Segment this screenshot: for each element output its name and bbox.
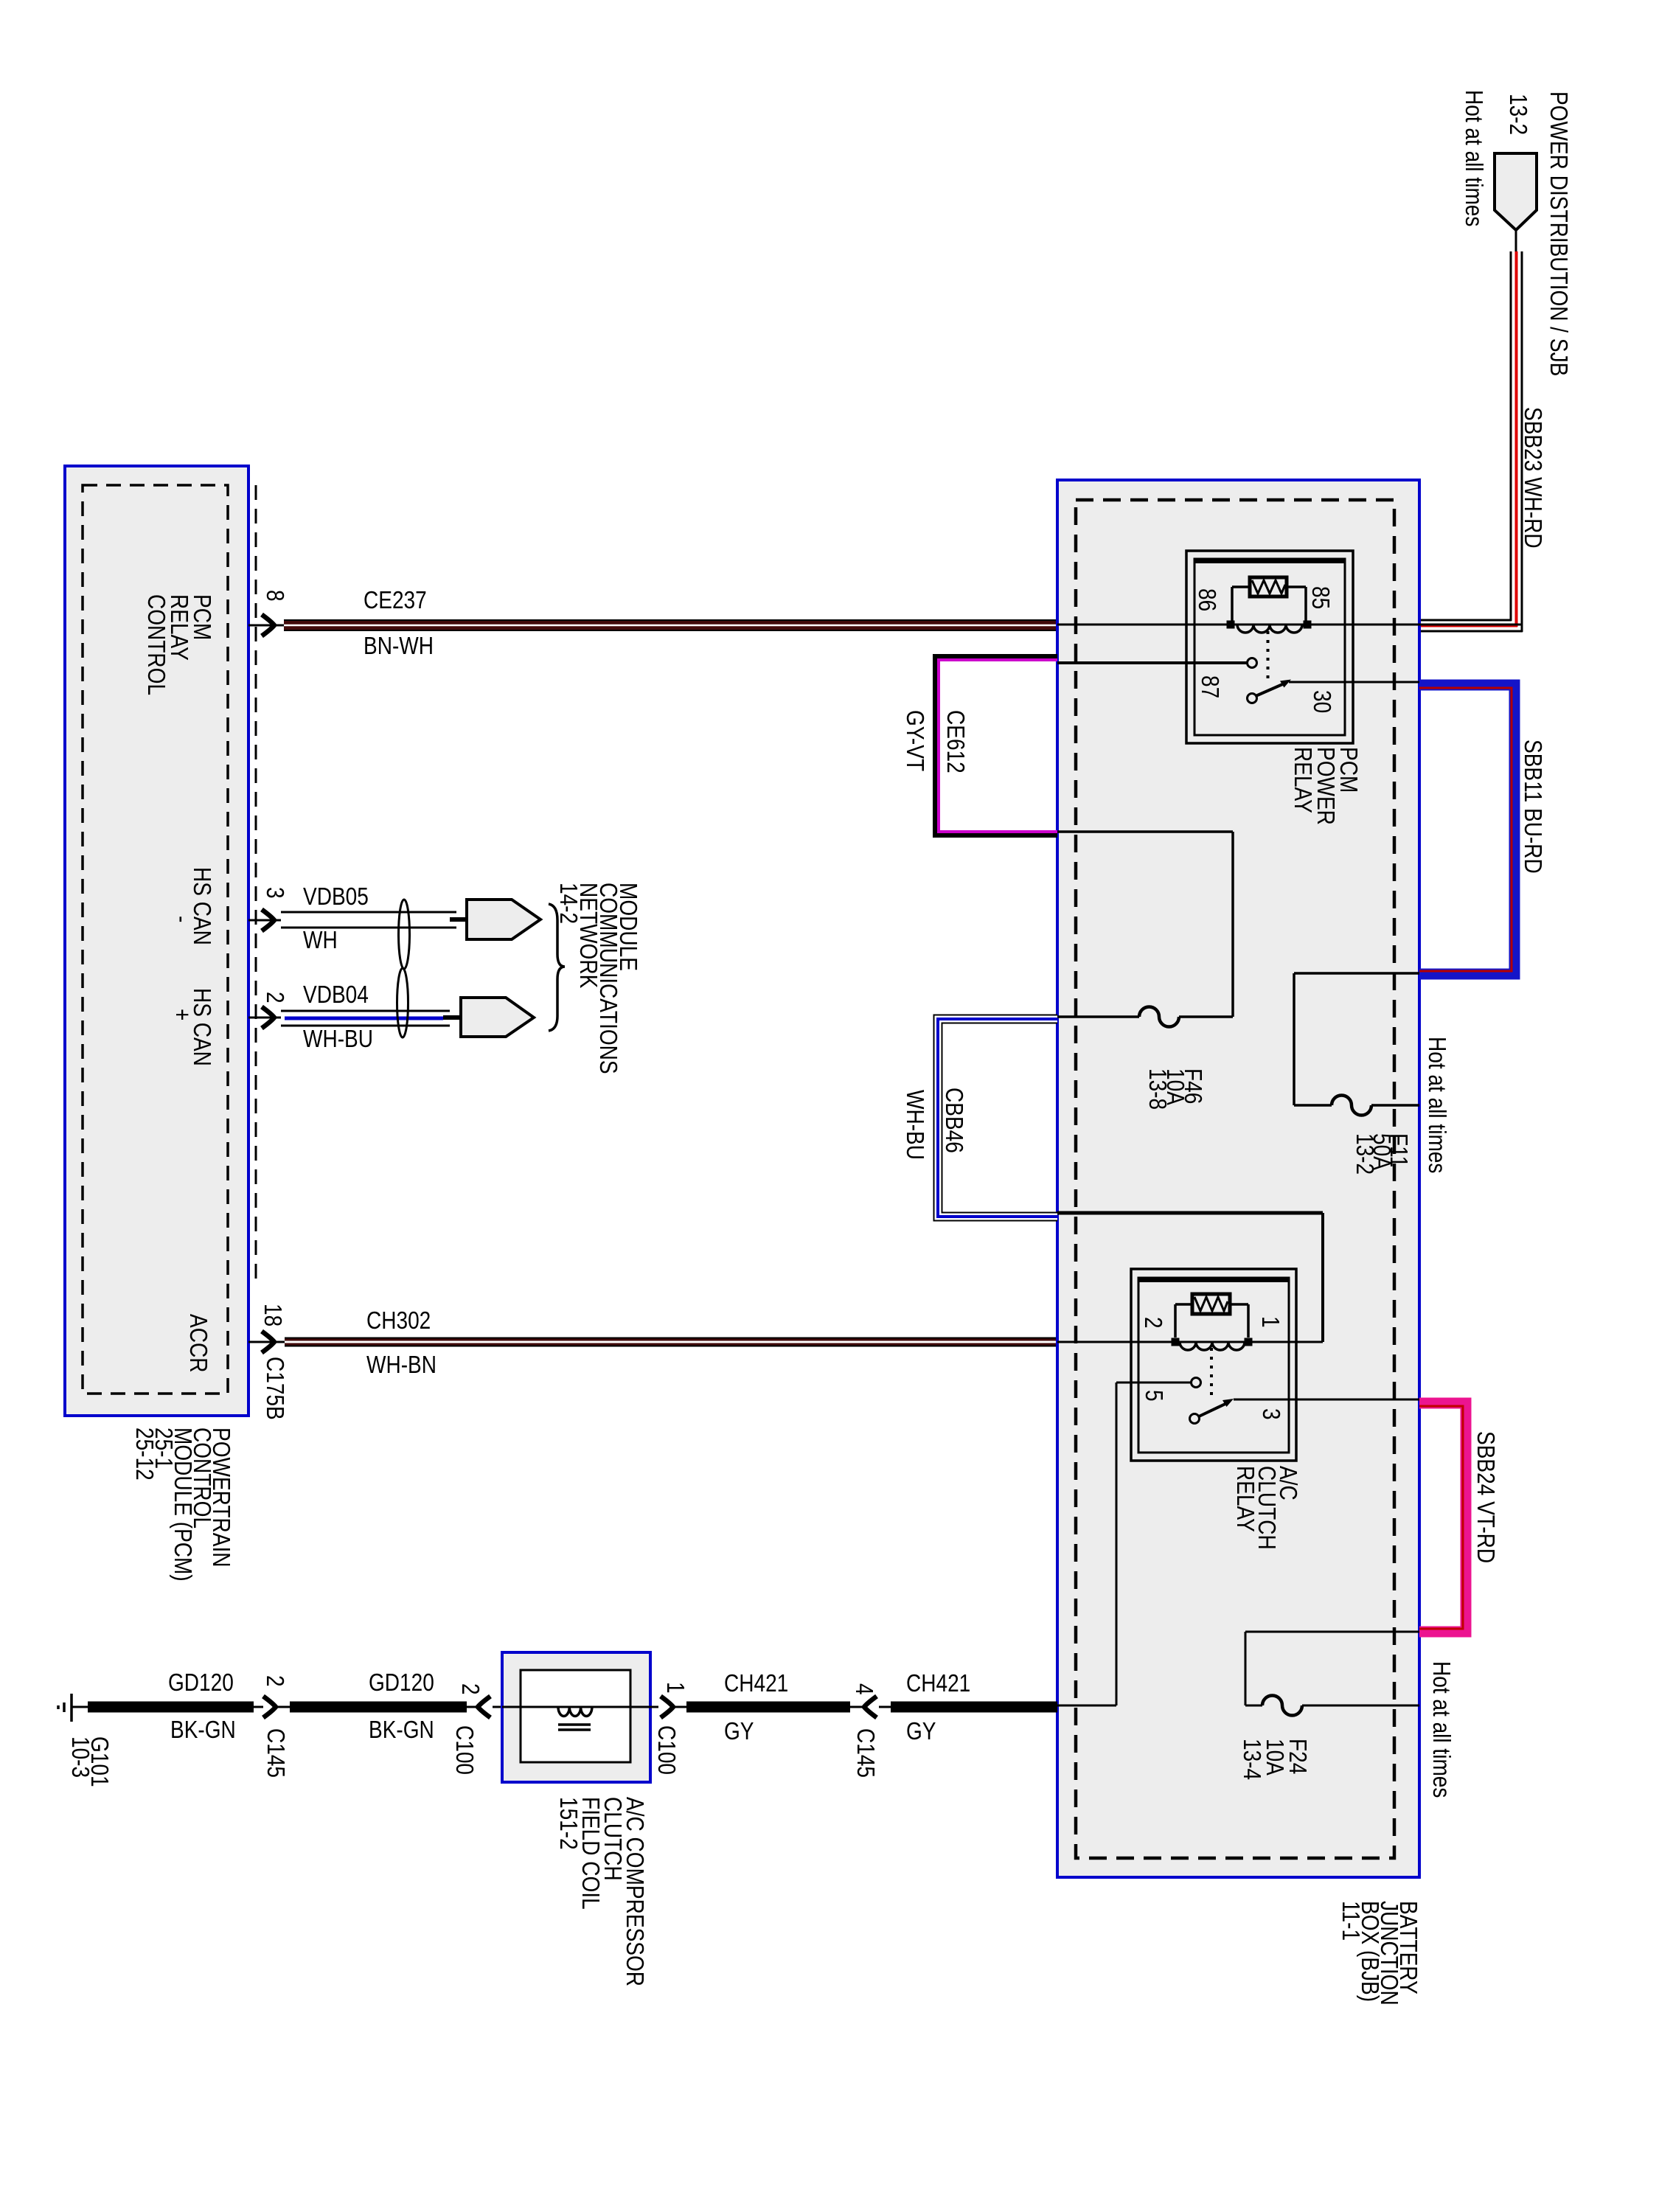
svg-text:CH421: CH421 xyxy=(724,1670,788,1697)
terminal dot pin2 xyxy=(1172,1338,1180,1346)
pin 3 stub xyxy=(248,919,281,922)
svg-text:4: 4 xyxy=(850,1683,877,1695)
A/C compressor clutch field coil box xyxy=(502,1652,650,1782)
svg-text:Hot at all times: Hot at all times xyxy=(1423,1037,1450,1173)
svg-text:GY: GY xyxy=(906,1718,936,1745)
svg-text:HS CAN: HS CAN xyxy=(188,988,215,1066)
svg-text:POWER DISTRIBUTION / SJB: POWER DISTRIBUTION / SJB xyxy=(1545,91,1572,376)
switch arm pivot circle xyxy=(1248,694,1257,703)
svg-text:SBB11 BU-RD: SBB11 BU-RD xyxy=(1519,740,1546,874)
A/C switch arm xyxy=(1199,1402,1228,1416)
svg-text:8: 8 xyxy=(261,590,288,602)
svg-text:VDB05: VDB05 xyxy=(303,883,369,911)
wire SBB24 VT-RD bracket xyxy=(1419,1403,1466,1632)
wire CE237 BN-WH xyxy=(284,619,1057,631)
svg-text:85: 85 xyxy=(1307,586,1334,609)
wire GD120 BK-GN segment 2 xyxy=(290,1702,467,1713)
svg-text:WH-BN: WH-BN xyxy=(366,1352,437,1379)
svg-text:C100: C100 xyxy=(653,1725,680,1775)
power feed pentagon connector xyxy=(1495,153,1537,230)
wire CH421 GY segment 2 xyxy=(891,1702,1057,1713)
svg-text:SBB23 WH-RD: SBB23 WH-RD xyxy=(1519,407,1546,549)
brace xyxy=(549,904,565,1031)
A/C relay coil resistor box xyxy=(1192,1294,1230,1314)
pin 87 wire xyxy=(1057,661,1247,664)
svg-text:GD120: GD120 xyxy=(168,1669,234,1697)
pin 3 wire to SBB24 xyxy=(1234,1399,1425,1401)
resistor side wires xyxy=(1232,585,1250,588)
svg-text:C100: C100 xyxy=(451,1725,478,1775)
svg-text:2: 2 xyxy=(261,992,288,1004)
svg-text:WH-BU: WH-BU xyxy=(303,1026,373,1053)
svg-text:GD120: GD120 xyxy=(369,1669,434,1697)
svg-text:C145: C145 xyxy=(262,1728,289,1778)
wire CBB46 WH-BU bracket xyxy=(938,1019,1057,1217)
fuse F46 loop xyxy=(1057,830,1233,833)
svg-text:3: 3 xyxy=(1257,1408,1284,1420)
terminal dot pin1 xyxy=(1245,1338,1253,1346)
connector C100 arrow (right of coil) xyxy=(661,1697,673,1718)
svg-text:WH-BU: WH-BU xyxy=(901,1090,928,1160)
terminal dot 86 xyxy=(1227,621,1235,629)
svg-text:BN-WH: BN-WH xyxy=(364,633,434,660)
pin 5 drop wire xyxy=(1116,1382,1118,1705)
svg-text:C175B: C175B xyxy=(261,1357,288,1420)
svg-text:Hot at all times: Hot at all times xyxy=(1427,1661,1455,1798)
svg-text:HS CAN: HS CAN xyxy=(188,867,215,945)
twisted pair VDB04 WH-BU xyxy=(281,1010,450,1012)
powertrain control module (PCM) box xyxy=(65,466,248,1416)
pin 2 stub xyxy=(248,1017,281,1019)
svg-text:SBB24 VT-RD: SBB24 VT-RD xyxy=(1472,1431,1499,1563)
svg-text:CONTROL: CONTROL xyxy=(142,594,170,695)
svg-text:25-12: 25-12 xyxy=(131,1427,158,1481)
svg-text:GY: GY xyxy=(724,1718,754,1745)
ground G101 xyxy=(70,1694,73,1722)
connector C175B dashed line xyxy=(255,485,257,1287)
svg-text:13-8: 13-8 xyxy=(1144,1068,1171,1110)
CBB46 feed line to A/C relay xyxy=(1057,1211,1323,1215)
svg-text:10-3: 10-3 xyxy=(66,1736,94,1778)
pin 87 terminal circle xyxy=(1248,658,1257,668)
coil through line xyxy=(502,1706,650,1708)
pentagon connector VDB05 xyxy=(450,917,467,922)
wire stub from pentagon xyxy=(1515,230,1517,251)
pin 18 stub xyxy=(248,1341,285,1343)
pin 5 wire xyxy=(1116,1382,1191,1384)
A/C coil arcs xyxy=(1180,1342,1245,1350)
pin 18 arrow xyxy=(262,1332,274,1353)
relay coil resistor box xyxy=(1250,577,1287,597)
wire SBB23 WH-RD horizontal into BJB xyxy=(1419,619,1512,622)
svg-text:13-2: 13-2 xyxy=(1351,1133,1378,1175)
svg-text:VDB04: VDB04 xyxy=(303,981,369,1009)
svg-text:ACCR: ACCR xyxy=(184,1314,212,1372)
svg-text:BK-GN: BK-GN xyxy=(170,1717,236,1744)
svg-text:WH: WH xyxy=(303,927,338,954)
svg-text:2: 2 xyxy=(261,1675,288,1687)
relay actuator dashed line xyxy=(1267,631,1270,680)
wire SBB23 WH-RD vertical xyxy=(1510,251,1512,621)
svg-text:14-2: 14-2 xyxy=(554,883,582,924)
svg-text:2: 2 xyxy=(1139,1317,1166,1329)
svg-text:2: 2 xyxy=(456,1683,484,1695)
svg-text:13-2: 13-2 xyxy=(1504,94,1531,135)
svg-text:CH302: CH302 xyxy=(366,1307,431,1335)
pin 8 arrow xyxy=(262,615,274,636)
svg-text:CE237: CE237 xyxy=(364,587,427,614)
coil arcs xyxy=(1237,625,1302,633)
svg-text:87: 87 xyxy=(1196,675,1223,698)
A/C clutch relay outer box xyxy=(1131,1269,1296,1461)
wire CH421 GY segment 1 xyxy=(686,1702,850,1713)
svg-text:RELAY: RELAY xyxy=(1289,747,1316,813)
pentagon connector VDB04 xyxy=(443,1015,461,1020)
field coil arcs xyxy=(558,1707,592,1717)
twisted pair VDB05 WH xyxy=(281,911,456,914)
svg-text:151-2: 151-2 xyxy=(554,1797,582,1850)
twisted pair twist symbol xyxy=(399,900,410,969)
svg-text:CBB46: CBB46 xyxy=(940,1088,967,1153)
PCM power relay inner box xyxy=(1194,559,1345,735)
pin 30 wire xyxy=(1289,681,1514,684)
svg-text:GY-VT: GY-VT xyxy=(901,710,928,771)
A/C clutch relay inner box xyxy=(1138,1278,1289,1453)
svg-text:11-1: 11-1 xyxy=(1337,1901,1364,1941)
pin 2 arrow xyxy=(262,1007,274,1029)
svg-text:5: 5 xyxy=(1140,1390,1167,1402)
pin 8 stub xyxy=(248,625,286,627)
F24 loop wire xyxy=(1245,1631,1419,1633)
svg-text:+: + xyxy=(168,1009,195,1020)
coil line pin86-pin85 through wire xyxy=(1057,624,1521,626)
A/C coil line pin2-pin1 xyxy=(1057,1341,1323,1343)
pin 5 terminal circle xyxy=(1192,1378,1201,1388)
svg-text:-: - xyxy=(168,916,195,922)
svg-text:13-4: 13-4 xyxy=(1238,1739,1265,1780)
svg-text:CE612: CE612 xyxy=(942,710,969,773)
terminal dot 85 xyxy=(1304,621,1312,629)
svg-text:C145: C145 xyxy=(852,1728,879,1778)
A/C relay actuator dashed line xyxy=(1210,1348,1213,1397)
svg-text:30: 30 xyxy=(1308,690,1335,713)
svg-text:18: 18 xyxy=(259,1304,286,1326)
BJB inner dashed border xyxy=(1076,500,1394,1858)
battery junction box (BJB) xyxy=(1057,480,1419,1877)
svg-text:RELAY: RELAY xyxy=(1231,1466,1259,1532)
connector C145 arrow (ground side) xyxy=(263,1697,276,1718)
wire SBB11 BU-RD bracket xyxy=(1419,685,1514,974)
A/C resistor side wires xyxy=(1175,1303,1192,1306)
core bars xyxy=(558,1723,591,1726)
connector C100 arrow (left of coil) xyxy=(478,1697,490,1718)
wire GD120 BK-GN segment 1 xyxy=(88,1702,254,1713)
PCM power relay outer box xyxy=(1186,551,1353,743)
pin 3 arrow xyxy=(262,910,274,931)
field coil inner box xyxy=(521,1670,630,1762)
svg-text:3: 3 xyxy=(261,887,288,899)
A/C switch arm pivot circle xyxy=(1190,1414,1200,1424)
wire CE612 GY-VT bracket xyxy=(936,658,1057,834)
svg-text:1: 1 xyxy=(1256,1316,1284,1328)
switch arm xyxy=(1256,683,1286,696)
svg-text:1: 1 xyxy=(661,1682,689,1694)
connector C145 arrow (right) xyxy=(864,1697,877,1718)
svg-text:86: 86 xyxy=(1193,588,1220,611)
PCM inner dashed border xyxy=(83,485,228,1394)
fuse F11 loop xyxy=(1294,972,1419,975)
wire CH302 WH-BN xyxy=(285,1338,1057,1347)
svg-text:BK-GN: BK-GN xyxy=(369,1717,434,1744)
svg-text:Hot at all times: Hot at all times xyxy=(1460,90,1487,226)
svg-text:CH421: CH421 xyxy=(906,1670,970,1697)
